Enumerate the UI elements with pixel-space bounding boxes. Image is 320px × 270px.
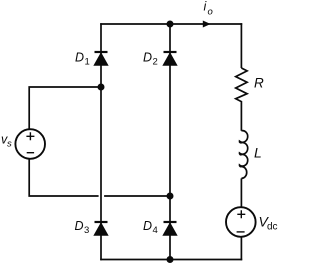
svg-text:dc: dc bbox=[267, 222, 278, 233]
node junction dot middle (vs- to D2/D4) bbox=[167, 193, 174, 200]
wire source top connection bbox=[29, 87, 101, 129]
svg-text:o: o bbox=[208, 7, 213, 18]
resistor R bbox=[236, 68, 247, 131]
node junction dot top (D2 cathode to top rail) bbox=[167, 21, 174, 28]
inductor L bbox=[239, 131, 247, 179]
vs source - sign bbox=[27, 152, 34, 154]
svg-text:s: s bbox=[7, 139, 12, 150]
wire top rail (node of D1/D2 cathodes to load) bbox=[100, 23, 242, 25]
diode D1 bbox=[94, 52, 108, 65]
voltage source Vdc circle bbox=[226, 207, 256, 237]
arrow io current direction bbox=[203, 21, 211, 28]
wire left leg x=101 (D1/D3 branch) bbox=[100, 23, 102, 260]
diode D4 bbox=[163, 222, 177, 235]
node junction dot bottom rail bbox=[167, 256, 174, 263]
node junction dot left (vs+ to D1/D3) bbox=[98, 84, 105, 91]
diode D2 bbox=[163, 52, 177, 65]
wire source bottom connection (break at crossing of x=101 leg) bbox=[29, 159, 170, 196]
wire inductor to Vdc bbox=[240, 178, 242, 207]
Vdc source - sign bbox=[237, 231, 245, 233]
svg-text:2: 2 bbox=[153, 57, 158, 68]
Vdc source + sign bbox=[237, 210, 245, 218]
svg-text:D: D bbox=[143, 219, 152, 233]
vs source + sign bbox=[26, 132, 34, 140]
svg-text:R: R bbox=[254, 76, 264, 91]
svg-text:D: D bbox=[75, 51, 84, 65]
wire right leg: top rail to resistor bbox=[240, 23, 242, 68]
diode D3 bbox=[94, 222, 108, 235]
svg-text:3: 3 bbox=[84, 225, 89, 236]
svg-text:L: L bbox=[254, 145, 262, 161]
voltage source vs circle bbox=[15, 129, 45, 159]
svg-text:1: 1 bbox=[85, 57, 90, 68]
wire right leg: Vdc to bottom rail bbox=[240, 237, 242, 260]
wire bottom rail bbox=[100, 259, 242, 261]
svg-text:D: D bbox=[143, 51, 152, 65]
wire middle leg x=170 (D2/D4 branch) bbox=[169, 24, 171, 260]
svg-text:D: D bbox=[75, 219, 84, 233]
svg-text:4: 4 bbox=[153, 225, 158, 236]
